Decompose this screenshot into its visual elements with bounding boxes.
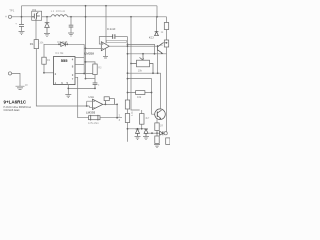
op-amp U1A (93, 99, 103, 109)
node r7 bottom dot (141, 128, 143, 130)
wire opamp1 inv loop (99, 37, 112, 44)
resistor R13 (125, 114, 129, 123)
svg-text:1R: 1R (160, 125, 163, 128)
ground C1 (19, 32, 25, 35)
wire pin2 stub (44, 72, 54, 74)
wire pin1 branch (68, 87, 95, 89)
resistor R12 (125, 100, 129, 109)
wire R2 to pin2 (43, 64, 45, 73)
node out row dot (151, 132, 153, 134)
capacitor C3 (113, 34, 115, 39)
ground D6 (143, 137, 149, 140)
wire q2 collector link (163, 42, 167, 44)
node q2 base dot (157, 45, 159, 47)
wire right edge lower (166, 47, 168, 132)
zener D5 (136, 129, 140, 136)
resistor R11 (164, 40, 168, 47)
node q2 collector dot (166, 42, 168, 44)
diode D1 (45, 23, 50, 34)
zener D6 (144, 129, 148, 136)
node u1a plus bus dot (86, 105, 88, 107)
wire Q1 to inductor (42, 16, 51, 18)
diode D2 (61, 42, 66, 46)
wire R1 down to bus (36, 49, 89, 106)
resistor R8 (155, 123, 159, 130)
diode D7 (160, 131, 165, 135)
svg-text:0V: 0V (25, 85, 28, 87)
wire R4 right (100, 104, 122, 117)
svg-text:10k: 10k (138, 69, 143, 73)
wire to opamp1 plus (86, 47, 102, 49)
svg-text:TP1: TP1 (9, 8, 15, 12)
terminal J3 (164, 132, 167, 135)
wire vcc riser opamp (105, 6, 107, 44)
transistor Q1 (32, 11, 42, 20)
wire row92 (128, 92, 152, 94)
resistor R7 (140, 114, 145, 125)
wire fb right drop (127, 37, 129, 100)
node r8 bottom dot (156, 132, 158, 134)
svg-text:4.7k ohm: 4.7k ohm (88, 121, 99, 125)
capacitor C5 (93, 75, 98, 89)
node rail right dots (130, 16, 132, 18)
wire pin3 stub (75, 73, 95, 75)
transistor Q3 (155, 109, 166, 120)
wire pin riser (83, 44, 85, 73)
capacitor C1 (15, 22, 24, 32)
wire r12-r13 links (127, 109, 129, 142)
svg-text:LM358: LM358 (85, 52, 95, 56)
ground C2 (68, 33, 74, 36)
wire row54 (128, 53, 167, 55)
wire out row (148, 132, 160, 134)
terminal J1 circle (8, 15, 11, 18)
node riser stub dot (85, 78, 87, 80)
ground D5 (135, 137, 141, 140)
wire row73 (128, 73, 161, 109)
wire top rail (22, 5, 158, 7)
svg-text:R1: R1 (30, 42, 34, 46)
ground 555 (65, 95, 71, 98)
node D2 dots (58, 43, 60, 45)
wire zener row (128, 128, 147, 130)
wire pin7 stub down (75, 77, 89, 117)
wire R7 bottom (141, 124, 143, 129)
node pin1 branch dot (67, 88, 69, 90)
node row78 left dot (127, 78, 129, 80)
wire u1a plus in (87, 101, 93, 106)
node u1a out dot (105, 104, 107, 106)
wire u1a minus in (90, 106, 93, 107)
wire inductor to right (68, 16, 167, 18)
wire r3 top branch (86, 62, 96, 64)
resistor R6 (136, 91, 145, 95)
svg-text:U1A: U1A (88, 95, 94, 99)
diode D3 (155, 32, 159, 36)
svg-text:10k: 10k (137, 95, 142, 99)
svg-text:C4U3wr8 data4: C4U3wr8 data4 (4, 109, 21, 112)
terminal J2 (8, 72, 11, 75)
node pin2 junction (43, 72, 45, 74)
wire pot row (128, 44, 155, 53)
resistor R14 feedback (107, 40, 127, 42)
wire q2 down (157, 52, 159, 74)
wire cap to right (115, 36, 128, 38)
wire row78 (128, 79, 155, 115)
node pot row dot (127, 44, 129, 46)
ground J2 (16, 86, 25, 89)
inductor L1 (51, 15, 67, 17)
ground D1 (44, 33, 50, 36)
wire pin8 stub (75, 64, 84, 66)
node row73 left dot (127, 72, 129, 74)
node r4 row dot (116, 117, 118, 119)
wire Q3 emitter (156, 119, 158, 123)
svg-text:555: 555 (61, 58, 68, 63)
svg-text:+: + (5, 15, 7, 19)
svg-text:4k7: 4k7 (145, 117, 150, 120)
wire vertical x131 (131, 17, 140, 110)
wire pin1 gnd (67, 85, 69, 95)
node C2 junction (70, 16, 72, 18)
wire diode row left (44, 44, 84, 57)
wire pin4 stub (75, 57, 84, 59)
resistor R3 (93, 64, 97, 75)
resistor R4 (89, 115, 101, 121)
node pot dots (142, 53, 144, 55)
wire opamp1 out (109, 45, 157, 47)
terminal J1 plus (5, 15, 12, 19)
svg-text:9+LA6R1C: 9+LA6R1C (4, 99, 27, 104)
node row54 left dot (127, 53, 129, 55)
node out dot (127, 45, 129, 47)
wire zener K drop (156, 17, 158, 32)
IC U2 555 (54, 57, 76, 85)
transistor Q2 (158, 43, 163, 54)
ground opamp1 (103, 57, 108, 59)
wire R7 top (141, 110, 143, 114)
wire R8 bottom (156, 130, 158, 136)
wire rail right drop (156, 6, 158, 17)
svg-text:IC1 NE: IC1 NE (55, 51, 64, 55)
wire u1a out (103, 103, 117, 105)
box bottom right (166, 138, 170, 145)
potentiometer P1 (131, 54, 153, 73)
wire riser stub (86, 78, 96, 80)
svg-text:0.1mF: 0.1mF (107, 27, 116, 31)
node drain junction (46, 16, 48, 18)
node c5 branch dot (94, 88, 96, 90)
title text (4, 99, 32, 112)
wire input (12, 16, 32, 18)
wire between (166, 30, 168, 41)
ground R9 (154, 145, 160, 148)
resistor R9 (155, 136, 159, 144)
node rail dot2 (105, 5, 107, 7)
node r3 branch dot (85, 61, 87, 63)
node junction Vin (21, 16, 23, 18)
wire right edge drop (166, 17, 168, 23)
svg-text:KCI: KCI (149, 35, 154, 39)
wire gate drive (35, 20, 37, 39)
wire supply riser (85, 6, 87, 79)
resistor R10 (164, 23, 168, 30)
resistor R1 (34, 40, 38, 49)
node zener row dots (127, 128, 129, 130)
svg-text:4.7k: 4.7k (131, 111, 134, 116)
resistor R2 (42, 57, 46, 64)
svg-text:LM393: LM393 (86, 111, 96, 115)
node riser dots (85, 5, 87, 7)
node pin3 dot (83, 73, 85, 75)
wire zener drop (46, 17, 48, 23)
resistor R5 feedback (104, 97, 114, 105)
wire J2 to gnd (12, 73, 20, 86)
node in+ dot (85, 48, 87, 50)
capacitor C2 (69, 17, 74, 33)
svg-text:L1 100uH: L1 100uH (51, 9, 65, 13)
op-amp U1B (101, 42, 109, 51)
node row92 left dot (127, 92, 129, 94)
svg-text:P-Ch/ctrl drive IRF9Z34 sw: P-Ch/ctrl drive IRF9Z34 sw (4, 106, 32, 109)
wire opamp1 vminus gnd (105, 48, 107, 56)
wire vin riser (21, 6, 23, 25)
